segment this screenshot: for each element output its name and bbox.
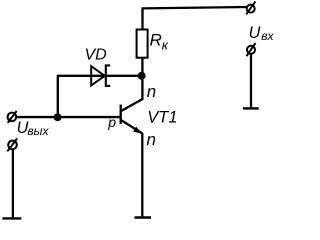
svg-text:n: n: [147, 82, 156, 101]
svg-text:к: к: [162, 37, 169, 52]
svg-text:вх: вх: [261, 29, 274, 43]
svg-text:U: U: [249, 24, 261, 42]
svg-text:VT1: VT1: [147, 109, 177, 127]
svg-text:n: n: [147, 130, 156, 149]
svg-text:p: p: [107, 114, 116, 130]
svg-text:VD: VD: [85, 46, 108, 63]
svg-text:R: R: [150, 30, 162, 49]
svg-text:вых: вых: [27, 124, 49, 138]
